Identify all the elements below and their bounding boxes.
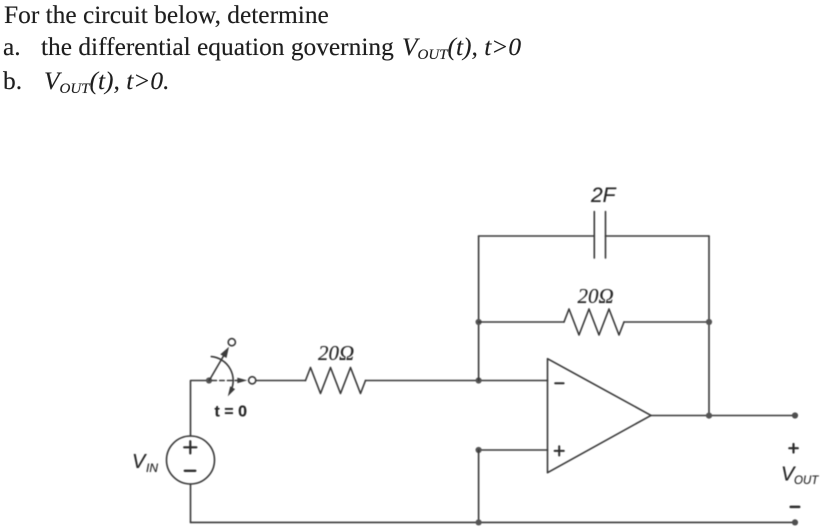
resistor Rf 20ohm zigzag	[564, 309, 624, 335]
label + (output)	[789, 444, 798, 453]
svg-text:20Ω: 20Ω	[578, 284, 614, 308]
wire: capacitor top-left lead	[479, 235, 595, 237]
svg-text:IN: IN	[146, 461, 158, 475]
voltage source V_IN circle	[167, 436, 215, 484]
svg-text:OUT: OUT	[794, 475, 819, 487]
terminal: output bottom	[792, 519, 798, 525]
wire: non-inverting input lead	[479, 449, 548, 451]
source polarity -	[185, 470, 196, 472]
label - (output)	[791, 506, 800, 509]
node: bottom rail junction	[476, 519, 482, 525]
node: non-inverting junction	[476, 447, 482, 453]
node: inverting input junction	[476, 377, 482, 383]
svg-text:t = 0: t = 0	[215, 404, 248, 421]
op-amp minus input marking	[555, 382, 563, 384]
label 2F	[590, 184, 617, 207]
wire: non-inverting down to bottom rail	[478, 450, 480, 522]
source polarity +	[184, 441, 196, 453]
wire: feedback left vertical	[478, 236, 480, 381]
node: feedback resistor left	[476, 319, 482, 325]
wire: capacitor right lead	[606, 235, 710, 237]
label V_OUT	[781, 464, 819, 488]
problem statement line 1	[4, 3, 329, 28]
node: output/feedback junction	[706, 413, 712, 419]
wire: Rf left lead	[479, 321, 564, 323]
problem statement line 3	[3, 69, 22, 94]
wire: op-amp output	[651, 415, 795, 417]
capacitor C 2F plates	[594, 212, 605, 259]
switch pivot node (filled)	[206, 377, 212, 383]
resistor R1 20ohm zigzag	[306, 368, 366, 394]
wire: R1 to op-amp inverting input	[366, 380, 548, 382]
svg-text:V: V	[132, 451, 147, 473]
switch upper open contact	[228, 339, 235, 346]
switch motion arc with arrowhead	[211, 357, 233, 393]
svg-text:2F: 2F	[590, 184, 617, 207]
terminal: output top	[792, 412, 798, 418]
op-amp plus input marking	[555, 446, 564, 455]
svg-text:20Ω: 20Ω	[318, 341, 354, 365]
wire: bottom rail	[191, 521, 796, 523]
op-amp U1 triangle	[548, 359, 652, 473]
label V_IN	[132, 451, 158, 475]
switch right contact circle	[249, 377, 256, 384]
switch dashed-arrowhead	[237, 378, 247, 384]
wire: switch to R1	[256, 380, 306, 382]
wire: V_IN bottom lead	[190, 484, 192, 522]
node: feedback resistor right	[706, 319, 712, 325]
wire: V_IN top lead up to switch level	[191, 381, 210, 437]
wire: feedback right vertical	[708, 236, 710, 416]
switch arm with arrowhead toward open contact	[209, 356, 223, 381]
switch dashed throw to closed contact	[212, 380, 238, 382]
problem statement line 2	[3, 35, 21, 60]
wire: Rf right lead	[624, 321, 709, 323]
